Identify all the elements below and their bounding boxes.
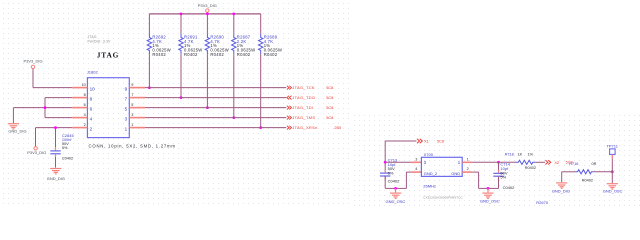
svg-text:8: 8 [84, 93, 86, 97]
svg-text:5C8: 5C8 [326, 96, 333, 100]
svg-text:P3V3_DIG: P3V3_DIG [27, 150, 46, 155]
svg-text:P3V3_DIG: P3V3_DIG [23, 59, 42, 64]
svg-text:10: 10 [82, 83, 86, 87]
junction on bus at R2691 [180, 13, 183, 16]
svg-text:GND_OSC: GND_OSC [480, 198, 500, 203]
svg-text:6: 6 [84, 103, 86, 107]
wire junction to ground [611, 172, 613, 183]
resistor R2689 4.7K [259, 34, 263, 55]
wire resistor R2690 to row [206, 54, 208, 107]
capacitor C713 10pf [384, 162, 386, 170]
junction R2690 to row wire [206, 106, 209, 109]
wire pin8 row [45, 97, 72, 99]
grid patch left [0, 0, 351, 206]
svg-text:1: 1 [458, 160, 461, 165]
pin 1 stub [462, 161, 472, 163]
wire pin2 to C2845 [55, 128, 57, 147]
wire TP711 to junction [611, 159, 613, 172]
wire row to net label JTAG_TCK [145, 87, 286, 89]
junction R2689 to row wire [259, 126, 262, 129]
capacitor C2845 100nf [55, 147, 57, 150]
pin 9 stub [129, 87, 145, 89]
junction on bus at power pin [206, 13, 209, 16]
wire bus to resistor R2691 [180, 14, 182, 34]
svg-text:1%: 1% [528, 153, 534, 157]
wire row to net label JTAG_TDO [145, 97, 286, 99]
pin 10 stub [72, 87, 87, 89]
svg-text:C0402: C0402 [388, 179, 401, 184]
svg-text:9: 9 [131, 83, 133, 87]
svg-text:JTAG_TMS: JTAG_TMS [292, 115, 315, 120]
pin 6 stub [72, 107, 87, 109]
pin 2 stub [72, 127, 87, 129]
svg-text:GND_2: GND_2 [424, 171, 438, 176]
svg-text:R0402: R0402 [237, 52, 251, 57]
ground GND_OSC (TP711) [607, 183, 618, 185]
wire pin1 to junction [472, 161, 498, 163]
svg-text:5C8: 5C8 [326, 106, 333, 110]
wire resistor R2692 to row [148, 54, 150, 87]
svg-text:5%: 5% [500, 175, 506, 180]
junction on bus at R2687 [232, 13, 235, 16]
wire bus to resistor R2692 [148, 14, 150, 34]
svg-text:JTAG: JTAG [97, 51, 119, 60]
svg-text:R0402: R0402 [152, 52, 166, 57]
gnd trunk vertical [44, 98, 46, 118]
net label JTAG_TDI [287, 106, 292, 110]
svg-text:CONN, 10pin, 5X2, SMD, 1.27mm: CONN, 10pin, 5X2, SMD, 1.27mm [89, 144, 176, 149]
svg-text:4: 4 [415, 167, 417, 171]
wire bus to resistor R2689 [260, 14, 262, 34]
pin 7 stub [129, 97, 145, 99]
wire junction to pin 3 [385, 161, 411, 163]
resistor R2692 4.7K [147, 34, 151, 55]
svg-text:5C8: 5C8 [326, 116, 333, 120]
svg-text:J1802: J1802 [87, 69, 99, 74]
resistor R716 0R [575, 170, 594, 174]
net label X2 [545, 160, 550, 164]
junction pin2/C714/ground [487, 187, 490, 190]
junction R2691 to row wire [180, 96, 183, 99]
wire resistor R2687 to row [233, 54, 235, 117]
svg-text:1: 1 [125, 127, 128, 132]
wire junction to R718 [499, 161, 517, 163]
svg-text:2B5: 2B5 [334, 126, 341, 130]
svg-text:JTAG_TDO: JTAG_TDO [292, 95, 315, 100]
junction TP711 [611, 170, 614, 173]
wire pin2 to ground run [472, 171, 478, 173]
svg-text:JTAG_XRSn: JTAG_XRSn [292, 125, 317, 130]
svg-text:P3V3_DIG: P3V3_DIG [198, 3, 217, 8]
pin 5 stub [129, 107, 145, 109]
svg-text:R0402: R0402 [264, 52, 278, 57]
wire resistor R2689 to row [260, 54, 262, 127]
svg-text:GND_DIG: GND_DIG [552, 188, 570, 193]
svg-text:7: 7 [125, 97, 128, 102]
svg-text:26MHz: 26MHz [423, 184, 436, 189]
svg-text:2: 2 [90, 127, 93, 132]
wire C2845 to ground [55, 157, 57, 168]
svg-text:PwrDist: 3.3V: PwrDist: 3.3V [88, 39, 112, 43]
svg-text:X700: X700 [424, 152, 434, 157]
svg-text:1K: 1K [518, 153, 523, 157]
resistor R718 1K [516, 160, 535, 164]
svg-text:2: 2 [84, 123, 86, 127]
net label JTAG_TDO [287, 96, 292, 100]
P3V3_DIG power symbol (pin 2) [34, 147, 37, 150]
svg-text:JTAG_TCK: JTAG_TCK [292, 85, 315, 90]
ground GND_OSC (C713) [395, 188, 397, 192]
svg-text:JTAG_TDI: JTAG_TDI [292, 105, 313, 110]
svg-text:2: 2 [467, 167, 469, 171]
wire R718 to X2 label [535, 161, 545, 163]
svg-text:X1: X1 [424, 139, 430, 144]
svg-text:R718: R718 [505, 153, 514, 157]
pin 4 stub [411, 171, 421, 173]
pin 3 stub [129, 117, 145, 119]
ground GND_DIG (R716 left) [561, 172, 563, 182]
wire bus to resistor R2687 [233, 14, 235, 34]
svg-text:GND_DIG: GND_DIG [47, 176, 65, 181]
svg-text:3: 3 [125, 117, 128, 122]
resistor R2691 4.7K [179, 34, 183, 55]
svg-text:1: 1 [467, 157, 469, 161]
top power bus wire [149, 13, 260, 15]
svg-text:3: 3 [424, 160, 427, 165]
wire pin4 row [45, 117, 72, 119]
svg-text:0R: 0R [592, 162, 597, 166]
net label JTAG_XRSn [287, 126, 292, 130]
svg-text:GND_DIG: GND_DIG [8, 129, 26, 134]
crystal X700 body [421, 157, 462, 176]
connector J1802 body [87, 78, 129, 138]
svg-text:5: 5 [131, 103, 133, 107]
svg-text:3: 3 [415, 157, 417, 161]
junction pin2 / C2845 [54, 126, 57, 129]
pin 1 stub [129, 127, 145, 129]
junction pin1/C714/R718 [497, 161, 500, 164]
svg-text:8: 8 [90, 97, 93, 102]
resistor R2690 4.7K [205, 34, 209, 55]
svg-text:R0402: R0402 [525, 166, 536, 170]
net label JTAG_TCK [287, 86, 292, 90]
net label X1 [417, 139, 422, 143]
junction R2687 to row wire [232, 116, 235, 119]
svg-text:TP711: TP711 [606, 144, 618, 149]
wire row to net label JTAG_TMS [145, 117, 286, 119]
wire to left ground [12, 108, 14, 123]
svg-text:5C8: 5C8 [437, 140, 444, 144]
pin 3 stub [411, 161, 421, 163]
wire X1 label [384, 141, 386, 162]
svg-text:5: 5 [125, 107, 128, 112]
wire row to net label JTAG_TDI [145, 107, 286, 109]
wire pin2 row [36, 127, 73, 129]
wire R716 to TP junction [594, 171, 613, 173]
wire P3V3 to pin10 [32, 69, 34, 88]
svg-text:R0402: R0402 [210, 52, 224, 57]
svg-text:4: 4 [90, 117, 93, 122]
pin 8 stub [72, 97, 87, 99]
capacitor C714 10pf [498, 162, 500, 170]
net label JTAG_TMS [287, 116, 292, 120]
wire pin6 row to left [13, 107, 72, 109]
wire down to P3V3 symbol [35, 128, 37, 147]
svg-text:C0402: C0402 [503, 185, 516, 190]
svg-text:7: 7 [131, 93, 133, 97]
resistor R2687 2.2K [232, 34, 236, 55]
svg-text:C0402: C0402 [62, 156, 73, 160]
svg-text:GND_OSC: GND_OSC [386, 199, 406, 204]
grid patch right [351, 112, 640, 207]
svg-text:3: 3 [131, 113, 133, 117]
svg-text:R0402: R0402 [184, 52, 198, 57]
svg-text:R0402: R0402 [582, 179, 593, 183]
wire ground to R716 [562, 171, 576, 173]
svg-text:5C8: 5C8 [326, 86, 333, 90]
ground GND_DIG (C2845) [50, 168, 61, 170]
svg-text:9: 9 [125, 87, 128, 92]
svg-text:5%: 5% [62, 146, 68, 150]
wire pin4 to ground run [406, 171, 411, 173]
svg-text:6: 6 [90, 107, 93, 112]
ground GND_DIG (left) [8, 123, 19, 125]
wire bus to resistor R2690 [206, 14, 208, 34]
junction C713/pin4/ground [394, 187, 397, 190]
svg-text:5%: 5% [388, 170, 394, 175]
pin 2 stub [462, 171, 472, 173]
junction pin3/C713/X1 [384, 161, 387, 164]
svg-text:R2670: R2670 [536, 200, 549, 205]
svg-text:CX3225GA26000P0RSTCC: CX3225GA26000P0RSTCC [423, 196, 463, 200]
svg-text:GND_OSC: GND_OSC [603, 188, 623, 193]
svg-text:R716: R716 [569, 162, 578, 166]
wire row to net label JTAG_XRSn [145, 127, 286, 129]
svg-text:4: 4 [84, 113, 86, 117]
junction trunk/pin6 [44, 106, 47, 109]
svg-text:1: 1 [131, 123, 133, 127]
svg-text:GND: GND [451, 171, 460, 176]
wire resistor R2691 to row [180, 54, 182, 97]
svg-text:X2: X2 [554, 160, 560, 165]
pin 4 stub [72, 117, 87, 119]
ground GND_OSC (C714) [487, 188, 489, 192]
junction R2692 to row wire [148, 86, 151, 89]
svg-text:10: 10 [90, 87, 96, 92]
